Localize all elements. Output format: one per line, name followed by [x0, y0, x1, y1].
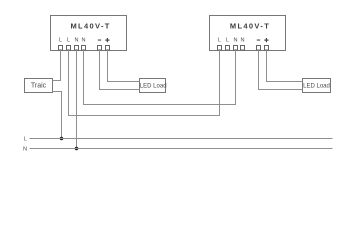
wire U1.N1 to mains N [76, 51, 78, 149]
wire triac output to mains L [53, 92, 62, 139]
U2 terminal N2 [241, 46, 245, 51]
svg-text:N: N [23, 147, 27, 153]
svg-text:LED Load: LED Load [303, 84, 330, 90]
triac dimmer box [25, 79, 53, 93]
U1 terminal N2 [82, 46, 86, 51]
svg-text:Traic: Traic [31, 83, 47, 90]
wire U1.N2 loop to U2.N1 [84, 51, 236, 105]
svg-text:L: L [226, 38, 229, 44]
U1 pin label plus [105, 38, 109, 42]
U1 terminal L2 [67, 46, 71, 51]
mains N line [30, 148, 333, 150]
U1 terminal N1 [75, 46, 79, 51]
svg-text:N: N [81, 38, 85, 44]
svg-text:N: N [74, 38, 78, 44]
U2 terminal L1 [218, 46, 222, 51]
U1 terminal plus [106, 46, 110, 51]
wire U2.minus to LED load 2 [259, 51, 303, 90]
U1 terminal L1 [59, 46, 63, 51]
svg-text:ML40V-T: ML40V-T [70, 21, 110, 30]
wire U2.plus to LED load 2 [267, 51, 303, 82]
driver U2 ML40V-T box [210, 16, 286, 51]
svg-text:L: L [24, 137, 27, 143]
svg-text:N: N [240, 38, 244, 44]
svg-text:L: L [59, 38, 62, 44]
wire U1.L2 loop to U2.L1 [69, 51, 220, 116]
U1 pin label minus [98, 40, 101, 41]
junction dot on N net [75, 147, 79, 151]
U2 pin label plus [264, 38, 268, 42]
mains L line [30, 138, 333, 140]
U2 pin label minus [257, 40, 260, 41]
wire U1.L1 to triac input [53, 51, 61, 81]
driver U1 ML40V-T box [51, 16, 127, 51]
U2 terminal plus [265, 46, 269, 51]
U2 terminal minus [257, 46, 261, 51]
svg-text:L: L [218, 38, 221, 44]
U2 terminal L2 [226, 46, 230, 51]
svg-text:LED Load: LED Load [140, 84, 167, 90]
svg-text:L: L [67, 38, 70, 44]
U1 terminal minus [98, 46, 102, 51]
LED load 2 box [303, 79, 331, 93]
wire U1.plus to LED load 1 [108, 51, 140, 82]
LED load 1 box [140, 79, 167, 93]
wire U1.minus to LED load 1 [100, 51, 140, 90]
svg-text:N: N [233, 38, 237, 44]
svg-text:ML40V-T: ML40V-T [230, 21, 270, 30]
junction dot on L net [60, 137, 64, 141]
U2 terminal N1 [234, 46, 238, 51]
